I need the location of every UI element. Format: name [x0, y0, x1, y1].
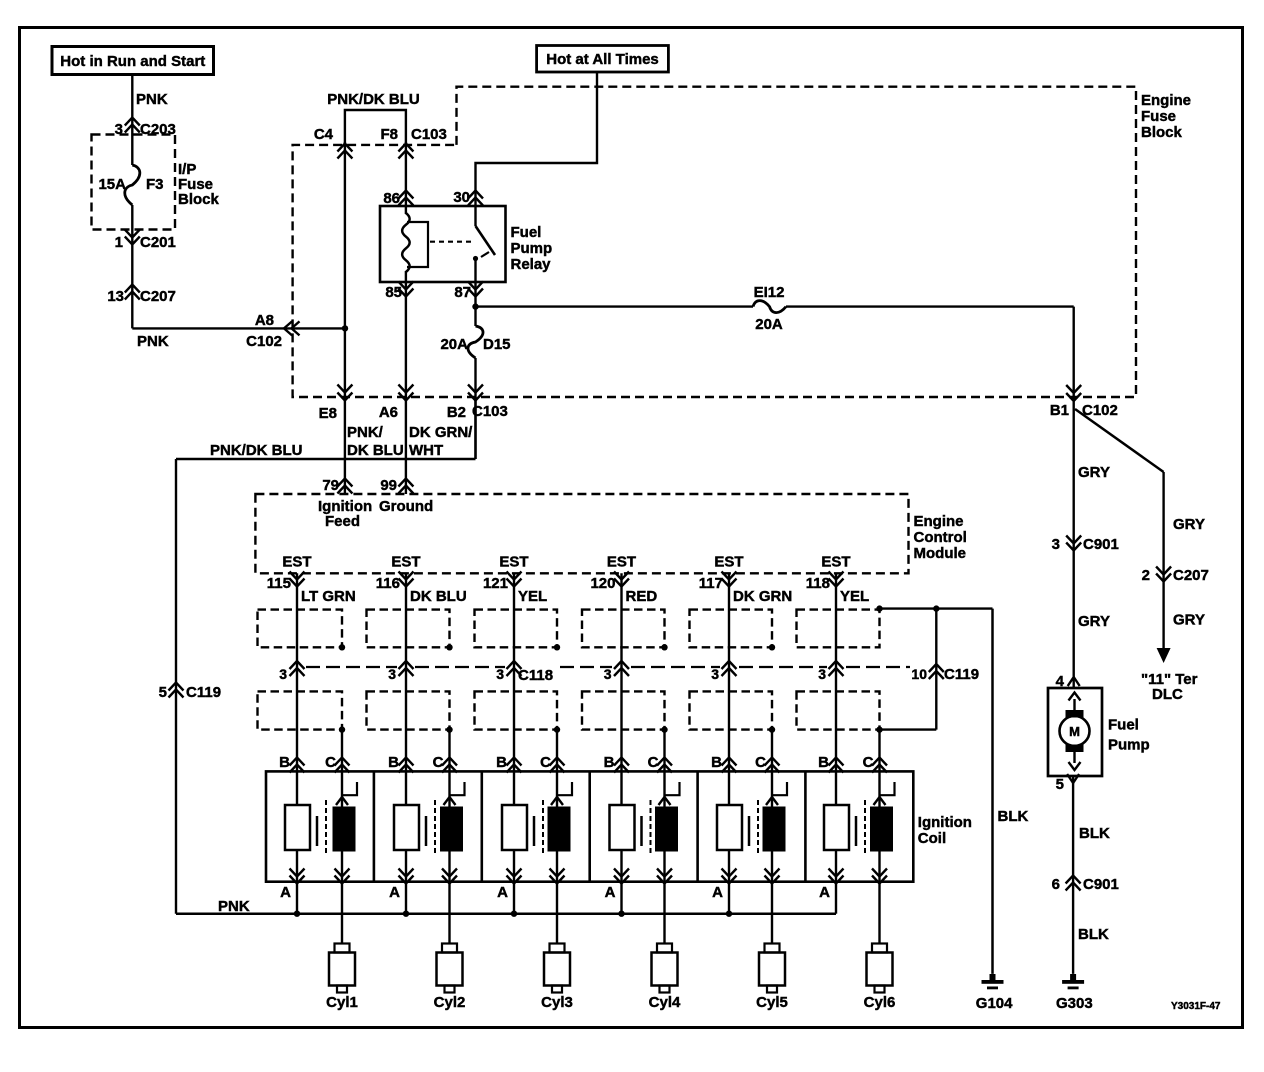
svg-text:87: 87 [454, 284, 471, 301]
svg-text:A: A [819, 884, 830, 901]
svg-text:C207: C207 [1173, 567, 1209, 584]
svg-text:EST: EST [714, 554, 743, 571]
svg-text:B: B [604, 754, 615, 771]
svg-text:C103: C103 [411, 126, 447, 143]
svg-text:GRY: GRY [1078, 613, 1110, 630]
svg-text:LT GRN: LT GRN [301, 588, 356, 605]
svg-text:Fuse: Fuse [1141, 108, 1176, 125]
svg-text:120: 120 [590, 575, 615, 592]
svg-text:116: 116 [376, 575, 400, 592]
svg-text:85: 85 [385, 284, 402, 301]
svg-text:C103: C103 [472, 403, 508, 420]
svg-text:B: B [818, 754, 829, 771]
svg-text:G104: G104 [976, 995, 1013, 1012]
svg-text:YEL: YEL [840, 588, 869, 605]
svg-text:C119: C119 [944, 666, 979, 683]
svg-text:117: 117 [699, 575, 723, 592]
svg-text:GRY: GRY [1173, 612, 1205, 629]
svg-text:C: C [325, 754, 336, 771]
svg-text:G303: G303 [1056, 995, 1093, 1012]
svg-text:Hot at All Times: Hot at All Times [546, 51, 659, 68]
svg-text:WHT: WHT [409, 442, 443, 459]
svg-text:PNK/DK BLU: PNK/DK BLU [210, 442, 303, 459]
svg-text:B: B [388, 754, 399, 771]
svg-text:A: A [712, 884, 723, 901]
svg-text:Coil: Coil [918, 830, 946, 847]
svg-text:B2: B2 [447, 404, 466, 421]
svg-text:C: C [648, 754, 659, 771]
svg-text:3: 3 [711, 666, 719, 682]
svg-text:DK GRN: DK GRN [733, 588, 792, 605]
svg-text:YEL: YEL [518, 588, 547, 605]
svg-text:Cyl6: Cyl6 [864, 994, 896, 1011]
svg-text:A: A [389, 884, 400, 901]
svg-text:Block: Block [178, 191, 220, 208]
svg-text:DK BLU: DK BLU [347, 442, 404, 459]
svg-text:C119: C119 [186, 684, 221, 701]
svg-text:1: 1 [115, 234, 123, 251]
svg-text:DK GRN/: DK GRN/ [409, 424, 473, 441]
svg-text:F3: F3 [146, 176, 164, 193]
svg-text:DLC: DLC [1152, 686, 1183, 703]
svg-text:Pump: Pump [511, 240, 553, 257]
svg-text:BLK: BLK [1079, 825, 1110, 842]
svg-text:Hot in Run and Start: Hot in Run and Start [60, 53, 205, 70]
svg-text:3: 3 [818, 666, 826, 682]
svg-text:C901: C901 [1083, 536, 1119, 553]
svg-text:Fuel: Fuel [511, 224, 542, 241]
svg-text:Cyl4: Cyl4 [649, 994, 681, 1011]
svg-text:C102: C102 [246, 333, 282, 350]
svg-text:C118: C118 [518, 667, 553, 684]
svg-text:C4: C4 [314, 126, 334, 143]
svg-text:EST: EST [282, 554, 311, 571]
svg-text:A: A [497, 884, 508, 901]
svg-text:PNK/: PNK/ [347, 424, 384, 441]
svg-text:Feed: Feed [325, 513, 360, 530]
svg-text:86: 86 [383, 190, 400, 207]
svg-text:EST: EST [821, 554, 850, 571]
svg-text:5: 5 [1056, 776, 1064, 793]
svg-text:EST: EST [607, 554, 636, 571]
svg-text:3: 3 [604, 666, 612, 682]
svg-text:121: 121 [483, 575, 508, 592]
svg-text:C201: C201 [140, 234, 176, 251]
svg-text:GRY: GRY [1173, 516, 1205, 533]
svg-text:B1: B1 [1050, 402, 1069, 419]
svg-text:Engine: Engine [914, 513, 964, 530]
svg-text:D15: D15 [483, 336, 511, 353]
svg-text:A: A [605, 884, 616, 901]
svg-text:B: B [711, 754, 722, 771]
svg-text:Block: Block [1141, 124, 1183, 141]
svg-text:BLK: BLK [998, 808, 1029, 825]
svg-text:PNK: PNK [136, 91, 168, 108]
svg-text:Fuel: Fuel [1108, 717, 1139, 734]
svg-text:EST: EST [499, 554, 528, 571]
svg-text:Cyl2: Cyl2 [434, 994, 466, 1011]
svg-text:GRY: GRY [1078, 464, 1110, 481]
svg-text:PNK: PNK [218, 898, 250, 915]
svg-text:Cyl1: Cyl1 [326, 994, 358, 1011]
svg-text:Engine: Engine [1141, 92, 1191, 109]
svg-text:99: 99 [380, 477, 397, 494]
svg-text:M: M [1069, 724, 1080, 739]
svg-text:C207: C207 [140, 288, 176, 305]
svg-text:6: 6 [1052, 876, 1060, 893]
svg-text:B: B [279, 754, 290, 771]
svg-text:F8: F8 [380, 126, 398, 143]
svg-text:118: 118 [806, 575, 830, 592]
svg-text:B: B [496, 754, 507, 771]
svg-text:10: 10 [911, 666, 927, 682]
svg-text:115: 115 [267, 575, 291, 592]
svg-text:Module: Module [914, 545, 967, 562]
svg-text:Cyl5: Cyl5 [756, 994, 788, 1011]
svg-text:EI12: EI12 [754, 284, 785, 301]
svg-text:Ground: Ground [379, 498, 433, 515]
svg-text:C: C [433, 754, 444, 771]
svg-text:C901: C901 [1083, 876, 1119, 893]
svg-text:Ignition: Ignition [918, 814, 972, 831]
svg-text:Control: Control [914, 529, 967, 546]
svg-text:Cyl3: Cyl3 [541, 994, 573, 1011]
svg-text:C: C [540, 754, 551, 771]
svg-text:79: 79 [322, 477, 339, 494]
svg-text:A6: A6 [379, 404, 398, 421]
svg-text:A: A [280, 884, 291, 901]
svg-text:15A: 15A [98, 176, 126, 193]
svg-text:20A: 20A [755, 316, 783, 333]
svg-text:A8: A8 [255, 312, 274, 329]
svg-text:20A: 20A [440, 336, 468, 353]
svg-text:3: 3 [1052, 536, 1060, 553]
svg-text:BLK: BLK [1078, 926, 1109, 943]
svg-text:C: C [863, 754, 874, 771]
svg-text:3: 3 [279, 666, 287, 682]
svg-text:PNK: PNK [137, 333, 169, 350]
svg-text:3: 3 [388, 666, 396, 682]
svg-text:5: 5 [159, 684, 167, 701]
svg-text:3: 3 [496, 666, 504, 682]
svg-text:2: 2 [1142, 567, 1150, 584]
svg-text:RED: RED [626, 588, 658, 605]
svg-text:Y3031F-47: Y3031F-47 [1171, 1001, 1221, 1012]
svg-text:Pump: Pump [1108, 737, 1150, 754]
svg-text:Relay: Relay [511, 256, 552, 273]
svg-text:PNK/DK BLU: PNK/DK BLU [327, 91, 420, 108]
svg-text:DK BLU: DK BLU [410, 588, 467, 605]
svg-text:C: C [755, 754, 766, 771]
svg-text:E8: E8 [319, 405, 337, 422]
svg-text:13: 13 [107, 288, 124, 305]
svg-text:EST: EST [391, 554, 420, 571]
